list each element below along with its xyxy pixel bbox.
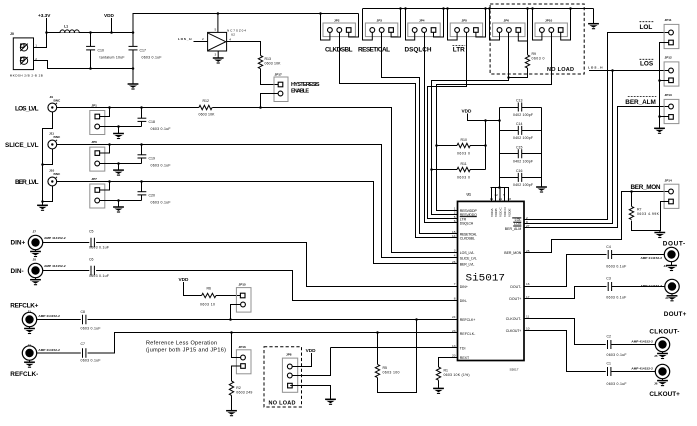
svg-text:0603 0.1uF: 0603 0.1uF bbox=[606, 296, 626, 300]
svg-text:DOUT-: DOUT- bbox=[663, 240, 686, 247]
wire JP6b square to line bbox=[100, 145, 110, 154]
svg-text:BER_ALM: BER_ALM bbox=[625, 99, 656, 106]
svg-text:VDD C: VDD C bbox=[499, 207, 503, 217]
ground bbox=[29, 360, 31, 361]
wire JP4 right bracket bbox=[434, 9, 444, 38]
jumper JP11 bbox=[664, 18, 679, 49]
ground bbox=[654, 128, 665, 133]
svg-text:CLKOUT+: CLKOUT+ bbox=[506, 329, 522, 333]
wire cap bank right rail bbox=[541, 108, 543, 187]
svg-text:0603 0: 0603 0 bbox=[532, 57, 545, 61]
resistor R7 bbox=[629, 192, 659, 220]
IC top pin labels (vertical) bbox=[490, 207, 512, 217]
svg-text:JP2: JP2 bbox=[334, 18, 340, 22]
svg-text:R10: R10 bbox=[461, 138, 467, 142]
wire LOL bbox=[524, 33, 669, 220]
wire U2 input bbox=[194, 41, 208, 43]
wire DIN- line bbox=[43, 271, 458, 301]
wire JP7 circle to gnd/cap bbox=[100, 200, 142, 202]
svg-text:tantalum 10uF: tantalum 10uF bbox=[100, 55, 125, 59]
svg-text:AMP 414152-2: AMP 414152-2 bbox=[44, 236, 66, 240]
svg-text:C5: C5 bbox=[89, 230, 94, 234]
svg-text:SLICE_LVL: SLICE_LVL bbox=[5, 142, 39, 149]
svg-text:19: 19 bbox=[490, 197, 494, 201]
svg-text:C3: C3 bbox=[606, 276, 611, 280]
svg-text:4: 4 bbox=[229, 37, 231, 41]
svg-text:LOL: LOL bbox=[640, 24, 653, 31]
wire VDD tap bbox=[111, 18, 113, 33]
svg-text:0603 4.99K: 0603 4.99K bbox=[637, 212, 660, 216]
svg-text:R9: R9 bbox=[532, 52, 537, 56]
resistor R1 bbox=[436, 367, 469, 380]
svg-text:J2: J2 bbox=[28, 343, 32, 347]
svg-text:16: 16 bbox=[526, 282, 530, 286]
svg-text:CLKDSBL: CLKDSBL bbox=[325, 47, 353, 54]
svg-text:VDD: VDD bbox=[306, 348, 317, 353]
wire rail to ground bbox=[593, 9, 595, 24]
svg-text:CLKOUT-: CLKOUT- bbox=[649, 328, 679, 335]
svg-text:5: 5 bbox=[503, 193, 505, 197]
wire JP10 right bracket bbox=[561, 9, 571, 41]
ground bbox=[588, 24, 599, 29]
wire TDI line bbox=[331, 347, 458, 349]
wire VDD pins bus bbox=[491, 187, 510, 189]
wire JP3 left bracket bbox=[363, 9, 373, 41]
wire U2 output to R13 bbox=[227, 42, 261, 56]
svg-text:DIN-: DIN- bbox=[11, 268, 24, 275]
svg-text:LOS: LOS bbox=[640, 61, 654, 68]
svg-text:0402 100pF: 0402 100pF bbox=[513, 183, 533, 187]
svg-text:BER_MON: BER_MON bbox=[504, 251, 521, 255]
svg-text:+3.3V: +3.3V bbox=[38, 13, 51, 18]
svg-text:R11: R11 bbox=[461, 162, 467, 166]
wire VDDC pin stub bbox=[499, 188, 501, 202]
connector J5 bbox=[655, 337, 669, 351]
dashed box NO LOAD (bottom) bbox=[264, 347, 302, 407]
wire cap bank left rail bbox=[499, 108, 501, 188]
connector J9 BNC bbox=[48, 103, 57, 112]
ground bbox=[654, 233, 665, 238]
svg-text:R7: R7 bbox=[637, 207, 642, 211]
wire BNC shield bus bbox=[43, 112, 53, 205]
svg-text:C13: C13 bbox=[516, 99, 522, 103]
svg-text:AMP 414152-2: AMP 414152-2 bbox=[38, 314, 60, 318]
svg-text:C7: C7 bbox=[81, 342, 86, 346]
svg-text:J8: J8 bbox=[33, 258, 37, 262]
wire alarm jumper squares ground bus bbox=[660, 43, 669, 128]
capacitor C14 bbox=[500, 122, 542, 140]
capacitor C8 bbox=[81, 310, 101, 330]
svg-text:4: 4 bbox=[454, 254, 456, 258]
wire VDD drop to R10/R11 bbox=[485, 121, 487, 170]
connector J11 BNC bbox=[48, 140, 57, 149]
svg-text:JP6: JP6 bbox=[504, 18, 510, 22]
ground bbox=[226, 411, 237, 416]
svg-text:CLKDSBL: CLKDSBL bbox=[460, 237, 475, 241]
svg-text:1: 1 bbox=[35, 44, 37, 48]
jumper JP2 bbox=[323, 18, 355, 36]
svg-text:0603 0.1uF: 0603 0.1uF bbox=[142, 55, 162, 59]
jumper JP3 bbox=[365, 18, 397, 36]
svg-text:JP6: JP6 bbox=[91, 140, 97, 144]
svg-text:C17: C17 bbox=[140, 49, 146, 53]
wire JP4 left bracket bbox=[406, 9, 415, 41]
svg-text:0603 10K: 0603 10K bbox=[265, 61, 282, 65]
IC right pin labels bbox=[504, 218, 522, 333]
svg-text:0603 0.1uF: 0603 0.1uF bbox=[151, 163, 171, 167]
svg-text:AMP 414152-2: AMP 414152-2 bbox=[641, 256, 663, 260]
svg-text:JP8: JP8 bbox=[286, 353, 292, 357]
svg-text:TDI: TDI bbox=[460, 347, 466, 351]
wire JP2 signal to CLKDSBL pin bbox=[340, 32, 458, 237]
svg-text:DSQLCH: DSQLCH bbox=[460, 222, 474, 226]
jumper JP6 bbox=[493, 18, 525, 36]
wire JP10 signal to pin1 bbox=[437, 32, 552, 210]
svg-text:VDD: VDD bbox=[104, 13, 115, 18]
wire R5 loop to REFCLK+ bbox=[378, 320, 417, 393]
connector J3 bbox=[664, 247, 678, 261]
capacitor C3 bbox=[606, 276, 626, 299]
resistor R11 bbox=[432, 162, 486, 180]
svg-text:DIN+: DIN+ bbox=[460, 285, 468, 289]
svg-text:0603 0: 0603 0 bbox=[457, 176, 470, 180]
svg-text:R12: R12 bbox=[203, 99, 209, 103]
ground bbox=[662, 379, 664, 380]
wire VDDA pin stub bbox=[491, 188, 493, 202]
svg-text:C2: C2 bbox=[607, 335, 612, 339]
wire JP8 pin3 to ground bbox=[290, 386, 330, 399]
connector J6 bbox=[655, 364, 669, 378]
svg-text:24: 24 bbox=[452, 315, 456, 319]
wire DOUT- route bbox=[524, 255, 664, 287]
svg-text:0603 0.1uF: 0603 0.1uF bbox=[151, 127, 171, 131]
wire C17 down to ground bbox=[132, 69, 134, 84]
svg-text:J5: J5 bbox=[654, 354, 658, 358]
svg-text:R6: R6 bbox=[207, 286, 212, 290]
jumper JP17 bbox=[274, 73, 288, 102]
svg-text:BNC: BNC bbox=[54, 135, 61, 139]
capacitor C10 bbox=[86, 33, 124, 69]
wire R9 bottom to JP6 drop bbox=[509, 68, 528, 78]
resistor R10 bbox=[437, 138, 486, 156]
svg-text:AMP 414152-2: AMP 414152-2 bbox=[631, 340, 653, 344]
wire REFCLK+ line bbox=[37, 319, 458, 321]
svg-text:LTR: LTR bbox=[453, 46, 465, 53]
svg-text:0603 10: 0603 10 bbox=[200, 302, 215, 306]
svg-text:J6: J6 bbox=[654, 381, 658, 385]
svg-text:BER_LVL: BER_LVL bbox=[15, 179, 39, 186]
svg-text:Reference Less Operation: Reference Less Operation bbox=[146, 341, 217, 347]
capacitor C17 bbox=[129, 33, 162, 69]
svg-text:R2: R2 bbox=[236, 386, 241, 390]
svg-text:C1: C1 bbox=[607, 362, 612, 366]
svg-text:RESET/CAL: RESET/CAL bbox=[358, 47, 390, 54]
svg-text:0603 100: 0603 100 bbox=[383, 371, 400, 375]
svg-text:C6: C6 bbox=[89, 258, 94, 262]
svg-text:0603 0.1uF: 0603 0.1uF bbox=[89, 246, 109, 250]
svg-text:C19: C19 bbox=[149, 157, 155, 161]
wire R2 to ground bbox=[231, 395, 233, 410]
wire CLKOUT+ route bbox=[524, 331, 655, 372]
svg-text:C16: C16 bbox=[516, 169, 522, 173]
wire JP17 circle to LOS_LVL line bbox=[261, 94, 279, 108]
wire U2 power pin bbox=[217, 14, 219, 33]
svg-text:R1: R1 bbox=[444, 368, 449, 372]
svg-text:C4: C4 bbox=[606, 245, 611, 249]
wire J0 pin1 bbox=[34, 18, 47, 48]
wire R7 and JP14 square to ground bbox=[632, 202, 669, 231]
svg-text:JP10: JP10 bbox=[545, 18, 553, 22]
capacitor C16 bbox=[500, 169, 542, 187]
wire R1 to ground bbox=[438, 380, 440, 388]
resistor R6 bbox=[200, 286, 240, 306]
wire DOUT+ route bbox=[524, 287, 665, 299]
svg-text:0603 0.1uF: 0603 0.1uF bbox=[81, 358, 101, 362]
wire VDD rail top bbox=[47, 32, 134, 34]
resistor R5 bbox=[375, 333, 399, 378]
svg-text:3: 3 bbox=[215, 53, 217, 57]
jumper JP10 bbox=[535, 18, 567, 36]
wire LOS / LOS_H bbox=[589, 70, 669, 72]
svg-text:R5: R5 bbox=[383, 366, 388, 370]
svg-text:HYSTERESIS: HYSTERESIS bbox=[291, 82, 320, 88]
wire JP6 right bracket bbox=[518, 9, 527, 42]
connector J7 bbox=[28, 235, 42, 249]
svg-text:VDD D: VDD D bbox=[503, 207, 507, 217]
svg-text:C10: C10 bbox=[98, 49, 104, 53]
svg-text:BNC: BNC bbox=[54, 172, 61, 176]
svg-text:AMP 414152-2: AMP 414152-2 bbox=[44, 264, 66, 268]
capacitor C4 bbox=[606, 245, 626, 268]
capacitor C7 bbox=[81, 342, 101, 362]
resistor R12 bbox=[199, 99, 216, 117]
svg-text:7: 7 bbox=[454, 282, 456, 286]
wire LOS vertical bbox=[524, 71, 613, 224]
svg-text:L1: L1 bbox=[64, 25, 68, 29]
svg-text:BNC: BNC bbox=[54, 99, 61, 103]
svg-text:(jumper both JP15 and JP16): (jumper both JP15 and JP16) bbox=[146, 347, 226, 353]
svg-text:0603 0.1uF: 0603 0.1uF bbox=[606, 264, 626, 268]
svg-text:3: 3 bbox=[454, 248, 456, 252]
svg-text:DSQLCH: DSQLCH bbox=[405, 47, 432, 54]
capacitor C6 bbox=[89, 258, 109, 278]
jumper JP14 bbox=[664, 179, 679, 209]
svg-text:JP7: JP7 bbox=[91, 177, 97, 181]
wire CLKOUT- route bbox=[524, 319, 655, 345]
svg-text:20: 20 bbox=[452, 353, 456, 357]
svg-text:J1: J1 bbox=[28, 309, 32, 313]
svg-text:J7: J7 bbox=[33, 229, 37, 233]
svg-text:0603 0: 0603 0 bbox=[457, 152, 470, 156]
wire JP1 circle to gnd/cap bbox=[100, 126, 142, 128]
jumper JP8 bbox=[282, 353, 297, 393]
svg-text:S5017: S5017 bbox=[510, 368, 519, 372]
svg-text:C14: C14 bbox=[516, 122, 522, 126]
svg-text:NC7SZ04: NC7SZ04 bbox=[227, 29, 246, 33]
svg-text:LOS_H: LOS_H bbox=[588, 66, 603, 70]
wire VDD to cap bank bbox=[468, 114, 500, 121]
ground bbox=[35, 250, 37, 251]
svg-text:0402 100pF: 0402 100pF bbox=[513, 113, 533, 117]
wire JP6 signal to pin2 bbox=[432, 32, 509, 214]
node dot bbox=[45, 31, 48, 34]
svg-text:VDD: VDD bbox=[179, 277, 190, 282]
svg-text:JP16: JP16 bbox=[239, 345, 247, 349]
resistor R9 bbox=[525, 41, 544, 68]
wire JP8 pin1 to VDD bbox=[292, 353, 311, 367]
svg-text:DOUT-: DOUT- bbox=[510, 285, 522, 289]
svg-text:REFCLK-: REFCLK- bbox=[460, 332, 476, 336]
svg-text:0603 0.1uF: 0603 0.1uF bbox=[81, 326, 101, 330]
inductor L1 bbox=[60, 25, 79, 33]
wire JP15 circle to REFCLK+ bbox=[231, 305, 241, 320]
svg-text:DOUT+: DOUT+ bbox=[664, 311, 687, 318]
ground bbox=[128, 84, 139, 89]
wire top rail from C17 up bbox=[133, 14, 359, 33]
svg-text:REXT: REXT bbox=[460, 356, 470, 360]
wire R13 to JP17 square bbox=[261, 69, 279, 85]
svg-text:0603 10K: 0603 10K bbox=[199, 113, 216, 117]
connector J10 BNC bbox=[48, 177, 57, 186]
svg-text:CLKOUT+: CLKOUT+ bbox=[649, 391, 680, 398]
svg-text:U2: U2 bbox=[231, 33, 235, 37]
capacitor C1 bbox=[607, 362, 627, 386]
ground bbox=[662, 352, 664, 353]
svg-text:BER_ALM: BER_ALM bbox=[505, 227, 522, 231]
svg-text:DOUT+: DOUT+ bbox=[509, 297, 521, 301]
svg-text:AMP 414152-2: AMP 414152-2 bbox=[641, 284, 663, 288]
wire BER_MON route bbox=[524, 192, 669, 253]
op-amp U2 NC7SZ04 inverter bbox=[202, 28, 246, 57]
svg-text:18: 18 bbox=[508, 197, 512, 201]
svg-text:VDDE: VDDE bbox=[507, 208, 511, 217]
svg-text:JP5: JP5 bbox=[462, 18, 468, 22]
svg-text:CLKOUT-: CLKOUT- bbox=[506, 317, 522, 321]
capacitor C5 bbox=[89, 230, 109, 250]
wire JP16 circle to REFCLK- bbox=[232, 333, 241, 358]
svg-text:0603 0.1uF: 0603 0.1uF bbox=[151, 200, 171, 204]
ground bbox=[671, 262, 673, 265]
jumper JP12 bbox=[664, 56, 679, 87]
svg-text:8: 8 bbox=[454, 297, 456, 301]
svg-text:AMP 414152-2: AMP 414152-2 bbox=[38, 348, 60, 352]
svg-text:REFCLK-: REFCLK- bbox=[10, 371, 38, 378]
wire BER_LVL line bbox=[57, 182, 458, 264]
svg-text:BER_LVL: BER_LVL bbox=[460, 263, 475, 267]
jumper JP4 bbox=[408, 18, 440, 36]
capacitor C18 bbox=[138, 108, 171, 131]
wire DIN+ line bbox=[43, 243, 458, 287]
capacitor C15 bbox=[500, 145, 542, 163]
resistor R2 bbox=[229, 381, 252, 395]
svg-text:5: 5 bbox=[215, 28, 217, 32]
svg-text:0402 100pF: 0402 100pF bbox=[513, 136, 533, 140]
connector J8 bbox=[28, 263, 42, 277]
svg-text:LOS_LVL: LOS_LVL bbox=[460, 251, 475, 255]
wire JP2 right bracket bbox=[349, 14, 359, 38]
ground bbox=[113, 207, 124, 212]
IC left pin labels bbox=[460, 209, 478, 360]
jumper JP16 bbox=[236, 345, 251, 374]
wire JP6b circle to gnd/cap bbox=[100, 163, 142, 165]
ground bbox=[113, 134, 124, 139]
wire BER_ALM bbox=[524, 107, 669, 228]
IC left pin numbers bbox=[452, 207, 456, 358]
svg-text:0603 249: 0603 249 bbox=[236, 391, 252, 395]
ground bbox=[433, 388, 444, 393]
wire JP5 right bracket bbox=[476, 9, 486, 38]
svg-text:JP3: JP3 bbox=[377, 18, 383, 22]
svg-text:0402 100pF: 0402 100pF bbox=[513, 160, 533, 164]
connector J4 bbox=[665, 279, 679, 293]
svg-text:0603 0.1uF: 0603 0.1uF bbox=[89, 274, 109, 278]
svg-text:JP12: JP12 bbox=[665, 56, 673, 60]
wire JP5 signal to LTR pin bbox=[428, 32, 467, 218]
svg-text:C15: C15 bbox=[516, 145, 522, 149]
svg-text:21: 21 bbox=[499, 197, 503, 201]
svg-text:0603 10K (1%): 0603 10K (1%) bbox=[444, 373, 470, 377]
ground bbox=[325, 399, 336, 404]
svg-text:JP13: JP13 bbox=[665, 93, 673, 97]
svg-text:VDD: VDD bbox=[462, 109, 473, 114]
svg-text:0603 0.1uF: 0603 0.1uF bbox=[607, 382, 627, 386]
svg-text:JP11: JP11 bbox=[665, 18, 672, 22]
wire LOS_LVL line bbox=[57, 108, 458, 253]
svg-text:6: 6 bbox=[454, 219, 456, 223]
wire JP7 square to line bbox=[100, 182, 110, 191]
svg-text:LOS_H: LOS_H bbox=[178, 37, 192, 41]
svg-text:REFCLK+: REFCLK+ bbox=[10, 302, 38, 309]
svg-text:VDDB: VDDB bbox=[494, 208, 498, 217]
op-amp U1 Si5017 bbox=[458, 193, 525, 372]
ground bbox=[37, 205, 48, 210]
wire JP16 square to R2 bbox=[232, 366, 241, 381]
wire VDD to R6 bbox=[184, 282, 202, 296]
wire J0 pin2 to ground rail bbox=[34, 61, 134, 69]
svg-text:C8: C8 bbox=[81, 310, 86, 314]
svg-text:0603 0.1uF: 0603 0.1uF bbox=[607, 353, 627, 357]
svg-text:SLICE_LVL: SLICE_LVL bbox=[460, 256, 477, 260]
svg-text:26: 26 bbox=[452, 260, 456, 264]
svg-text:BER_MON: BER_MON bbox=[631, 184, 661, 191]
ground bbox=[213, 58, 224, 63]
ground bbox=[113, 170, 124, 175]
jumper JP6b bbox=[90, 140, 105, 171]
jumper JP1 bbox=[90, 104, 105, 135]
svg-text:C18: C18 bbox=[149, 120, 155, 124]
svg-text:Si5017: Si5017 bbox=[466, 273, 506, 285]
jumper JP7 bbox=[90, 177, 105, 208]
wire JP4 signal to DSQLCH pin bbox=[425, 32, 458, 222]
jumper JP13 bbox=[664, 93, 679, 124]
resistor R13 bbox=[258, 56, 281, 69]
wire JP6 left bracket bbox=[490, 9, 500, 41]
svg-text:DIN+: DIN+ bbox=[11, 240, 26, 247]
svg-text:REFCLK+: REFCLK+ bbox=[460, 318, 476, 322]
wire JP2 left bracket bbox=[321, 14, 330, 41]
wire JP10 left bracket bbox=[533, 9, 542, 41]
dashed box NO LOAD (top) bbox=[490, 4, 584, 74]
svg-text:MKDSH 2/B 2-B 2B: MKDSH 2/B 2-B 2B bbox=[10, 73, 43, 77]
svg-text:J0: J0 bbox=[10, 32, 14, 36]
svg-text:DIN-: DIN- bbox=[460, 299, 468, 303]
connector J0 bbox=[10, 32, 43, 77]
svg-text:C20: C20 bbox=[149, 194, 155, 198]
wire VDDD pin stub bbox=[504, 188, 506, 202]
jumper JP15 bbox=[236, 283, 251, 313]
wire JP3 right bracket bbox=[391, 9, 400, 38]
capacitor C13 bbox=[500, 99, 542, 117]
